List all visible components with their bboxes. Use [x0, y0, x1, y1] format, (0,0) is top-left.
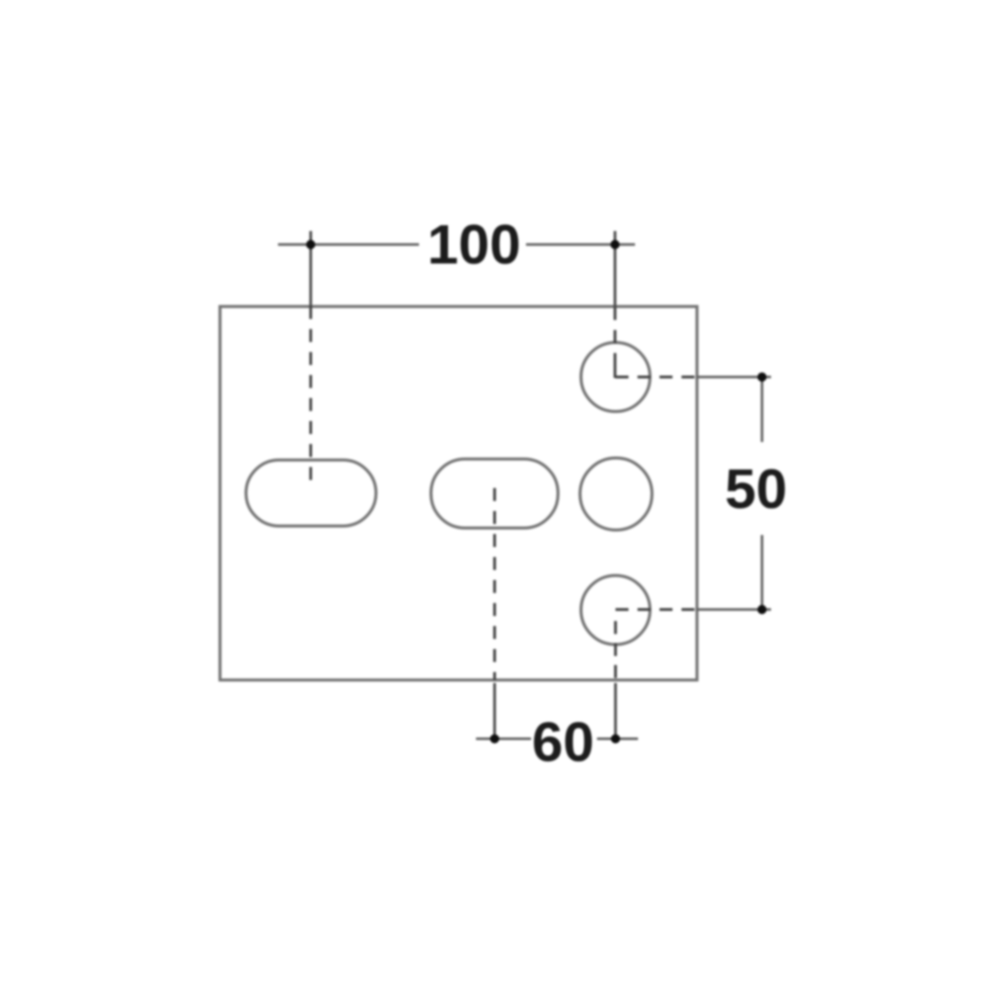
dim 50 lead bottom	[697, 608, 771, 611]
slot left	[246, 460, 376, 526]
centerline slot left	[309, 306, 312, 490]
dim 60 ext left	[493, 683, 496, 743]
centerline slot middle vertical	[493, 488, 496, 680]
dim 100 dot left	[306, 240, 315, 249]
centerline hole bottom horizontal	[616, 608, 698, 611]
dim 50 dot top	[757, 372, 766, 381]
dim 100 ext right	[614, 231, 617, 307]
dim 50 line top segment	[761, 377, 764, 442]
centerline hole bottom vertical	[614, 621, 617, 680]
dim 60 ext right	[614, 683, 617, 743]
plate outline	[220, 307, 697, 681]
centerline hole top vertical end	[614, 360, 617, 378]
dim 50 lead top	[697, 376, 771, 379]
dim 100 line right segment	[526, 243, 635, 246]
hole bottom	[581, 576, 650, 645]
centerline hole top vertical	[614, 307, 617, 360]
hole middle	[580, 458, 652, 530]
hole top	[581, 343, 650, 412]
dim 50 line bottom segment	[761, 535, 764, 610]
dim 60 dot left	[490, 734, 499, 743]
dim 60 line left segment	[476, 738, 531, 741]
dim 100 ext left	[309, 231, 312, 306]
dim 60 dot right	[611, 734, 620, 743]
dim 50 dot bottom	[757, 605, 766, 614]
svg-text:100: 100	[427, 213, 520, 276]
svg-text:50: 50	[725, 457, 787, 520]
svg-text:60: 60	[532, 710, 594, 773]
slot middle	[431, 459, 558, 528]
dim 60 line right segment	[597, 738, 638, 741]
dim 100 line left segment	[278, 243, 419, 246]
centerline hole top horizontal	[616, 376, 698, 379]
dim 100 dot right	[610, 240, 619, 249]
